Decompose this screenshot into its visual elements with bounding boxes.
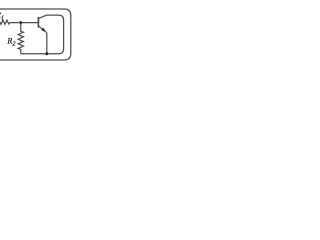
transistor Q1 emitter arrow [41, 28, 46, 32]
wire inner loop: collector line, inner right side, emitter/R2 bottom line [21, 15, 64, 54]
transistor Q1 emitter lead [39, 26, 47, 32]
resistor R1 [0, 20, 10, 24]
node B (junction dot emitter/bottom line) [45, 52, 48, 55]
svg-text:R2: R2 [6, 37, 16, 48]
transistor Q1 collector lead [39, 15, 47, 18]
wire base [10, 22, 39, 24]
resistor R2 [18, 23, 23, 54]
svg-text:R1: R1 [0, 11, 4, 22]
wire emitter vertical [46, 33, 48, 54]
node A (junction dot base/R2) [19, 21, 22, 24]
wire outer loop: top rail, right side, bottom rail [0, 9, 71, 60]
transistor Q1 base bar [37, 17, 39, 28]
